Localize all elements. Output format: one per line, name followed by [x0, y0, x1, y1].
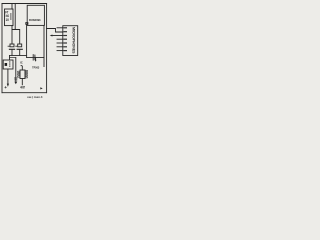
connector J1 box	[63, 26, 78, 56]
connector pin stubs	[57, 27, 63, 29]
pin square on U2	[26, 23, 28, 25]
wire vertical A	[43, 25, 45, 66]
wire arrow lead down	[7, 69, 9, 84]
IC U1 bottom lead	[21, 79, 23, 85]
svg-text:RUN4093: RUN4093	[29, 18, 41, 22]
ground triangle	[14, 82, 17, 85]
transformer T1 box	[5, 9, 14, 26]
transistor Q1 emitter arrow	[35, 60, 37, 62]
IC U1 box	[20, 70, 25, 79]
wire arrow signal to pin 3	[52, 35, 63, 37]
wire drop to transformer T1	[11, 4, 13, 10]
wire from U2 pin down	[26, 24, 28, 57]
wire branch to connector pin 2	[47, 29, 63, 33]
box B1 (bottom left)	[3, 60, 13, 69]
svg-text:ow.) man.3: ow.) man.3	[27, 95, 43, 99]
svg-text:MICROPHONES: MICROPHONES	[71, 27, 75, 54]
wire bottom rail	[2, 92, 47, 94]
arrowhead on pin3 wire	[50, 35, 53, 37]
wire emitter row	[27, 56, 44, 58]
transformer T1 core mark	[10, 13, 12, 19]
arrowhead right near bottom rail	[40, 87, 42, 89]
IC U2 box (top)	[27, 5, 44, 25]
dots in box B1	[9, 61, 10, 62]
wire right vertical (net V+)	[46, 4, 48, 93]
wire from top rail down at x15	[14, 4, 16, 30]
wire ground lead	[15, 58, 17, 82]
wire top rail	[2, 3, 47, 5]
plus sign battery	[5, 86, 7, 88]
IC U1 pins right	[25, 70, 27, 71]
svg-text:10: 10	[6, 18, 9, 22]
IC U1 pins left	[18, 71, 20, 72]
black square in box B1	[5, 63, 8, 66]
wire T1 bottom lead	[11, 26, 13, 44]
svg-text:4007: 4007	[20, 85, 25, 89]
wire left vertical	[1, 4, 3, 93]
wire jog joining caps	[12, 30, 20, 45]
transistor Q1	[32, 55, 34, 61]
svg-text:IC: IC	[20, 60, 23, 64]
capacitor C1	[10, 44, 14, 47]
wire box2 top lead	[9, 55, 11, 60]
IC U1 top lead	[21, 66, 23, 70]
connector pin marks	[63, 27, 67, 51]
label tick	[21, 64, 23, 67]
svg-text:TP503: TP503	[32, 65, 40, 69]
ground bars	[15, 77, 18, 79]
capacitor C2	[18, 44, 22, 47]
arrow down (battery +)	[7, 84, 9, 87]
wire ground rail of caps	[10, 54, 27, 56]
